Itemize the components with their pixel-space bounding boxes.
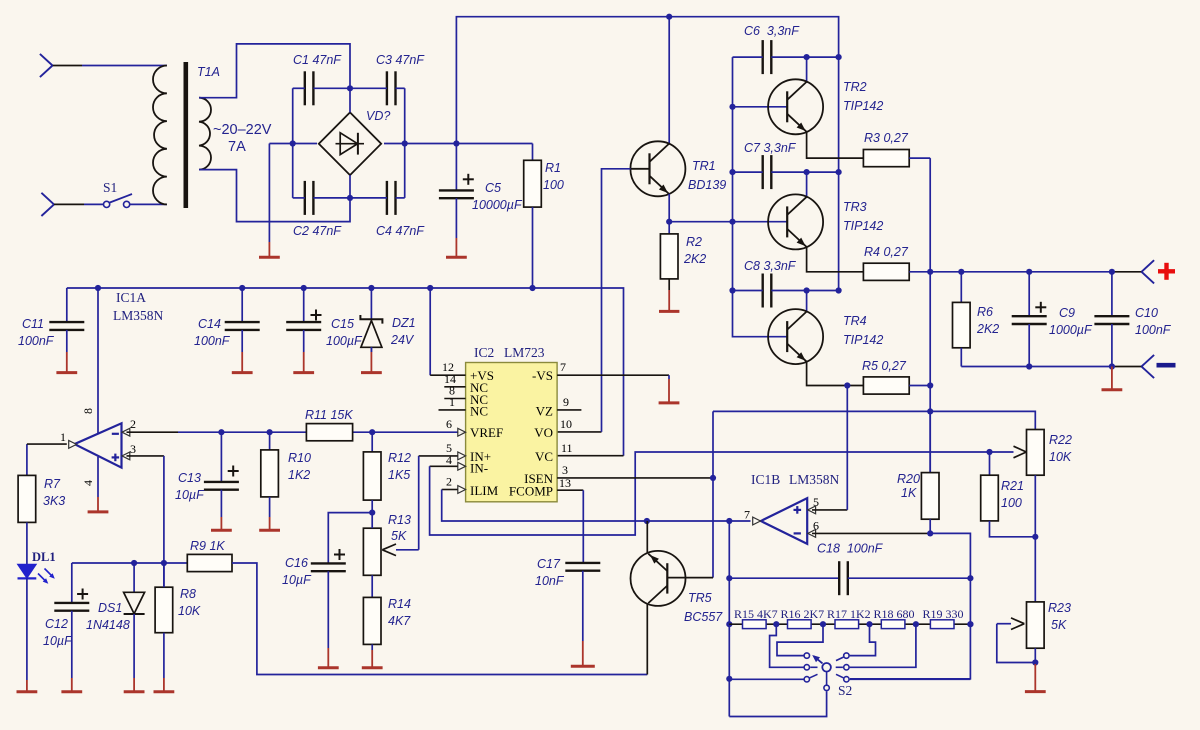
svg-text:2K2: 2K2 <box>683 252 706 266</box>
svg-text:R13: R13 <box>388 513 411 527</box>
node R18 R19 <box>913 621 919 627</box>
node rail +VS pin <box>427 285 433 291</box>
svg-text:7A: 7A <box>228 139 246 155</box>
wire top supply rail <box>456 17 838 291</box>
svg-text:C9: C9 <box>1059 306 1075 320</box>
capacitor C8 <box>744 259 797 308</box>
svg-text:R1: R1 <box>545 161 561 175</box>
wire bridge left column <box>292 88 294 198</box>
label transformer rating <box>213 122 272 155</box>
svg-text:C18 100nF: C18 100nF <box>817 542 884 556</box>
node R20 bottom <box>927 530 933 536</box>
svg-text:4: 4 <box>446 453 452 467</box>
svg-text:R12: R12 <box>388 451 411 465</box>
svg-text:C7 3,3nF: C7 3,3nF <box>744 141 797 155</box>
node R8 top <box>161 560 167 566</box>
wire IC1A out to R7 <box>27 443 67 445</box>
svg-text:VC: VC <box>535 449 553 464</box>
resistor R15 <box>734 607 778 629</box>
node TR5 emitter junction <box>644 518 650 524</box>
node base rail C7 <box>729 169 735 175</box>
ground R14 <box>362 644 383 667</box>
pin 5 IC1B <box>808 495 848 514</box>
svg-text:LM358N: LM358N <box>113 308 164 323</box>
svg-text:VZ: VZ <box>536 404 553 419</box>
wire + output rail <box>930 271 1141 273</box>
ground bridge <box>259 144 280 258</box>
wire R5 to output column <box>909 385 930 387</box>
svg-text:C11: C11 <box>22 317 44 331</box>
wire TR5 collector <box>646 604 648 675</box>
wire IC1A pin3 column <box>127 456 164 587</box>
svg-text:7: 7 <box>744 508 750 522</box>
wiper R23 <box>997 618 1036 663</box>
node output column +rail <box>927 269 933 275</box>
pin 3 ISEN <box>557 463 713 478</box>
node rail DZ1 <box>368 285 374 291</box>
ground DL1 <box>17 578 38 691</box>
wire bridge AC- to ground <box>269 143 317 145</box>
ground DS1 <box>124 614 145 692</box>
node base rail TR2 <box>729 104 735 110</box>
svg-text:LM723: LM723 <box>504 345 545 360</box>
wire n4 to d2 <box>850 624 916 667</box>
node C10 top <box>1109 269 1115 275</box>
svg-text:R9 1K: R9 1K <box>190 539 225 553</box>
svg-text:DZ1: DZ1 <box>392 316 416 330</box>
pin 11 VC <box>561 441 573 455</box>
ground R2 <box>659 279 679 312</box>
wire TR2 base <box>733 106 788 108</box>
pin 9 VZ <box>557 395 581 410</box>
svg-text:R20: R20 <box>897 472 920 486</box>
svg-text:10µF: 10µF <box>175 488 205 502</box>
resistor R2 <box>660 222 706 279</box>
node base rail C8 <box>729 287 735 293</box>
wire TR1 base from VO <box>557 169 649 432</box>
wire R4 to output node <box>909 271 930 273</box>
transistor TR1 <box>630 141 726 196</box>
switch S2 contact d2 <box>836 665 849 670</box>
switch S2 contact d3 <box>836 674 849 682</box>
wire TR5 emitter <box>646 521 648 553</box>
svg-text:TR1: TR1 <box>692 159 716 173</box>
wire C8 row <box>733 290 839 292</box>
capacitor C4 <box>376 181 425 238</box>
svg-text:C14: C14 <box>198 317 221 331</box>
svg-text:10K: 10K <box>178 604 201 618</box>
pin 2 ILIM <box>446 475 466 494</box>
svg-text:-VS: -VS <box>532 368 553 383</box>
ground C16 <box>318 571 339 668</box>
bridge rectifier VD? <box>319 88 391 198</box>
wire R3 to output column <box>909 157 930 159</box>
resistor R16 <box>781 607 825 629</box>
svg-text:100nF: 100nF <box>18 334 55 348</box>
svg-text:R8: R8 <box>180 587 196 601</box>
switch S2 contact c2 <box>804 665 817 670</box>
node R21 top <box>986 449 992 455</box>
wire switch to transformer primary <box>130 203 167 205</box>
wiper arrow R22 <box>1014 446 1027 458</box>
node rail C14 <box>239 285 245 291</box>
svg-text:T1A: T1A <box>197 65 220 79</box>
zener diode DZ1 <box>360 288 415 352</box>
svg-text:C4 47nF: C4 47nF <box>376 224 425 238</box>
node bridge top <box>347 85 353 91</box>
node switch row left <box>726 676 732 682</box>
diode DS1 <box>86 563 145 632</box>
svg-text:1K5: 1K5 <box>388 468 410 482</box>
resistor R17 <box>827 607 871 629</box>
capacitor C6 <box>744 24 800 74</box>
resistor R5 <box>862 359 909 394</box>
IC2 LM723 body <box>466 345 557 502</box>
switch S2 common contact <box>824 672 829 691</box>
svg-text:2K2: 2K2 <box>976 322 999 336</box>
node R23 bottom <box>1032 659 1038 665</box>
wire n2 to c1 <box>777 624 823 655</box>
wire base rail <box>733 57 788 337</box>
wire n1 to c2 <box>770 624 804 667</box>
node C8 TR4 collector <box>804 287 810 293</box>
svg-text:S1: S1 <box>103 180 117 195</box>
transistor TR5 <box>631 551 724 624</box>
node TR1 emitter <box>666 219 672 225</box>
svg-text:TR4: TR4 <box>843 314 867 328</box>
wire S2 common to bus <box>729 691 826 716</box>
svg-text:VO: VO <box>534 425 553 440</box>
pin 6 VREF arrow <box>446 417 466 436</box>
svg-text:R23: R23 <box>1048 601 1071 615</box>
pin 7 -VS <box>557 360 669 375</box>
wire C1 row <box>293 87 405 89</box>
svg-text:100µF: 100µF <box>326 334 363 348</box>
svg-text:DL1: DL1 <box>32 550 56 564</box>
ground R8 <box>154 633 175 692</box>
wire d3 to divider column <box>850 678 971 680</box>
resistor R11 <box>305 408 353 441</box>
ground C11 <box>56 330 77 373</box>
node divider column C18 <box>967 575 973 581</box>
svg-text:NC: NC <box>470 404 488 419</box>
pin 1 NC <box>439 395 466 410</box>
wire feedback row <box>713 411 1035 429</box>
connector X2 AC input bottom <box>41 193 54 216</box>
svg-text:2: 2 <box>446 475 452 489</box>
svg-text:BC557: BC557 <box>684 610 723 624</box>
svg-text:6: 6 <box>813 519 819 533</box>
svg-text:R21: R21 <box>1001 479 1024 493</box>
node ISEN junction <box>710 475 716 481</box>
node C3 column <box>402 140 408 146</box>
potentiometer R22 <box>1027 430 1072 602</box>
node IC1B out junction <box>726 518 732 524</box>
ground R10 <box>259 497 280 530</box>
connector X1 AC input top <box>40 54 53 77</box>
wire - output rail <box>961 366 1141 368</box>
svg-text:C16: C16 <box>285 556 308 570</box>
svg-text:3: 3 <box>562 463 568 477</box>
node collector rail C6 <box>836 54 842 60</box>
svg-text:10µF: 10µF <box>282 573 312 587</box>
resistor R14 <box>363 597 411 644</box>
ground C15 <box>293 330 314 373</box>
wire TR1 emitter <box>668 194 670 222</box>
resistor R1 <box>524 144 564 289</box>
svg-text:TR2: TR2 <box>843 80 867 94</box>
svg-text:VREF: VREF <box>470 425 503 440</box>
svg-text:R19 330: R19 330 <box>923 607 964 621</box>
svg-text:R7: R7 <box>44 477 61 491</box>
resistor R3 <box>863 131 909 167</box>
ground -VS <box>659 375 680 403</box>
wire IC1B pin5 riser <box>846 386 848 510</box>
capacitor C10 <box>1094 272 1171 367</box>
connector + output <box>1142 260 1176 283</box>
wire VREF row <box>127 431 458 433</box>
capacitor C11 <box>18 288 84 348</box>
svg-text:C12: C12 <box>45 617 68 631</box>
wire R20 bottom to divider column <box>850 533 970 678</box>
wiper R13 <box>382 544 418 556</box>
node C10 bottom <box>1109 363 1115 369</box>
node divider column R19 <box>967 621 973 627</box>
svg-text:C8 3,3nF: C8 3,3nF <box>744 259 797 273</box>
pin 7 IC1B <box>744 508 761 525</box>
potentiometer R23 <box>1027 601 1071 648</box>
svg-text:IN-: IN- <box>470 461 488 476</box>
svg-text:10nF: 10nF <box>535 574 565 588</box>
node R6 top <box>958 269 964 275</box>
svg-text:2: 2 <box>130 417 136 431</box>
op-amp IC1B <box>751 472 840 544</box>
wire TR2 emitter <box>807 132 864 158</box>
svg-text:R22: R22 <box>1049 433 1072 447</box>
svg-text:TR5: TR5 <box>688 591 712 605</box>
svg-text:R18 680: R18 680 <box>874 607 915 621</box>
wire AC neutral to switch <box>54 203 103 205</box>
node bridge bottom <box>347 195 353 201</box>
svg-text:C13: C13 <box>178 471 201 485</box>
switch S1 <box>103 180 132 207</box>
node R5 left current sense <box>844 382 850 388</box>
svg-text:FCOMP: FCOMP <box>509 484 553 499</box>
wire C2 row <box>293 197 405 199</box>
wire output column <box>929 158 931 473</box>
resistor R9 <box>187 539 232 572</box>
capacitor C13 <box>175 432 239 502</box>
svg-text:DS1: DS1 <box>98 601 122 615</box>
svg-text:4: 4 <box>81 480 95 486</box>
svg-text:10: 10 <box>560 417 572 431</box>
wire AC live input to transformer <box>53 65 167 67</box>
node collector rail C8 <box>836 287 842 293</box>
potentiometer R13 <box>363 513 411 598</box>
svg-text:7: 7 <box>560 360 566 374</box>
svg-text:R5 0,27: R5 0,27 <box>862 359 907 373</box>
resistor R20 <box>897 411 939 533</box>
svg-text:9: 9 <box>563 395 569 409</box>
node bridge left junction <box>290 140 296 146</box>
node C6 TR2 collector <box>804 54 810 60</box>
ground C12 <box>61 611 82 692</box>
pin 13 FCOMP <box>557 476 583 563</box>
svg-text:5K: 5K <box>391 529 407 543</box>
wire secondary bottom to bridge <box>199 170 350 222</box>
pin 3 IC1A <box>122 442 136 460</box>
wire TR3 collector <box>806 172 808 197</box>
svg-text:S2: S2 <box>838 683 852 698</box>
pin 4 IN- <box>446 453 466 470</box>
ground DZ1 <box>361 347 382 372</box>
node TR1 collector rail <box>666 14 672 20</box>
svg-text:100: 100 <box>1001 496 1022 510</box>
svg-text:C1 47nF: C1 47nF <box>293 53 342 67</box>
node rail C15 <box>301 285 307 291</box>
pin 12 +VS <box>430 288 465 375</box>
svg-text:C3 47nF: C3 47nF <box>376 53 425 67</box>
svg-text:R10: R10 <box>288 451 311 465</box>
wire R9 to TR5 collector <box>232 563 647 675</box>
node DS1 top <box>131 560 137 566</box>
node R17 R18 <box>866 621 872 627</box>
pin 10 VO <box>560 417 572 431</box>
capacitor C7 <box>744 141 797 189</box>
LED DL1 <box>18 522 56 583</box>
svg-text:3: 3 <box>130 442 136 456</box>
svg-text:IC1A: IC1A <box>116 290 146 305</box>
LM723 pin names left <box>470 368 503 498</box>
wire IC1B output bus <box>728 521 730 717</box>
wire C16 to R12 bottom <box>328 513 372 564</box>
ground C17 <box>571 571 595 667</box>
connector - output <box>1142 355 1176 378</box>
svg-text:C10: C10 <box>1135 306 1158 320</box>
node C13 top <box>218 429 224 435</box>
svg-text:IC2: IC2 <box>474 345 494 360</box>
ground C5 <box>446 198 467 257</box>
svg-text:IC1B: IC1B <box>751 472 780 487</box>
node output column feedback <box>927 408 933 414</box>
node R12 top <box>369 429 375 435</box>
node R12 R13 junction <box>369 509 375 515</box>
resistor R21 <box>981 452 1036 537</box>
node C18 TR5 base row <box>726 575 732 581</box>
svg-text:11: 11 <box>561 441 573 455</box>
svg-text:10K: 10K <box>1049 450 1072 464</box>
switch S2 contact d1 <box>836 653 849 661</box>
wire TR1 emitter to TR3 base <box>669 221 787 223</box>
pin 14 NC <box>444 372 466 387</box>
resistor R18 <box>874 607 915 629</box>
svg-text:24V: 24V <box>390 333 415 347</box>
transformer T1A <box>153 62 220 208</box>
capacitor C16 <box>282 549 346 587</box>
capacitor C14 <box>194 288 260 348</box>
svg-text:5K: 5K <box>1051 618 1067 632</box>
svg-text:C17: C17 <box>537 557 561 571</box>
svg-text:C5: C5 <box>485 181 501 195</box>
svg-text:R6: R6 <box>977 305 993 319</box>
svg-text:VD?: VD? <box>366 109 390 123</box>
transistor TR2 <box>768 79 883 134</box>
svg-text:R16 2K7: R16 2K7 <box>781 607 825 621</box>
svg-text:R11 15K: R11 15K <box>305 408 353 422</box>
wire IN+ to R13 wiper <box>419 456 458 550</box>
svg-text:100: 100 <box>543 178 564 192</box>
svg-text:C6 3,3nF: C6 3,3nF <box>744 24 800 38</box>
svg-text:R3 0,27: R3 0,27 <box>864 131 909 145</box>
transistor TR4 <box>768 309 883 364</box>
svg-text:1000µF: 1000µF <box>1049 323 1093 337</box>
capacitor C17 <box>535 557 600 588</box>
svg-text:R2: R2 <box>686 235 702 249</box>
svg-text:TIP142: TIP142 <box>843 99 883 113</box>
node R16 R17 <box>820 621 826 627</box>
svg-text:~20–22V: ~20–22V <box>213 122 272 138</box>
resistor R10 <box>261 432 311 497</box>
svg-text:13: 13 <box>559 476 571 490</box>
capacitor C9 <box>1012 272 1093 367</box>
wire LED sense row <box>72 562 188 564</box>
svg-text:C2 47nF: C2 47nF <box>293 224 342 238</box>
svg-text:TR3: TR3 <box>843 200 867 214</box>
wire bridge right column <box>404 88 406 198</box>
ground R23 <box>1025 648 1046 691</box>
svg-text:8: 8 <box>81 408 95 414</box>
wire +VS rail <box>67 288 624 456</box>
svg-text:10µF: 10µF <box>43 634 73 648</box>
node output column R5 <box>927 382 933 388</box>
node R19 right <box>967 621 973 627</box>
pin 2 IC1A <box>122 417 136 436</box>
capacitor C1 <box>293 53 342 105</box>
pin 6 IC1B <box>808 519 930 538</box>
resistor R12 <box>363 432 411 512</box>
node R15 row left <box>726 621 732 627</box>
pin 8 IC1A <box>81 288 98 433</box>
svg-text:1K2: 1K2 <box>288 468 310 482</box>
wire IN- to wiper bus <box>430 452 1014 535</box>
svg-text:1N4148: 1N4148 <box>86 618 130 632</box>
switch S2 contact c3 <box>804 674 817 682</box>
wire ILIM row <box>442 490 751 522</box>
wire TR1 collector <box>668 17 670 144</box>
svg-text:R17 1K2: R17 1K2 <box>827 607 871 621</box>
capacitor C12 <box>43 563 89 648</box>
wire TR3 emitter <box>807 247 864 272</box>
svg-text:100nF: 100nF <box>1135 323 1172 337</box>
svg-text:1K: 1K <box>901 486 917 500</box>
resistor R7 <box>18 444 65 522</box>
wire TR4 emitter <box>807 362 864 386</box>
node R15 R16 <box>773 621 779 627</box>
node R10 top <box>267 429 273 435</box>
pin 4 IC1A ground <box>81 457 108 512</box>
node C9 bottom <box>1026 363 1032 369</box>
wire C6 row <box>733 56 839 58</box>
switch S2 contact c1 <box>804 653 809 658</box>
svg-text:R4 0,27: R4 0,27 <box>864 245 909 259</box>
capacitor C18 <box>729 542 970 596</box>
resistor R8 <box>155 563 201 633</box>
svg-text:ILIM: ILIM <box>470 483 499 498</box>
resistor R6 <box>953 272 1000 367</box>
resistor R19 <box>923 607 964 629</box>
svg-text:TIP142: TIP142 <box>843 333 883 347</box>
node base rail TR3 <box>729 219 735 225</box>
